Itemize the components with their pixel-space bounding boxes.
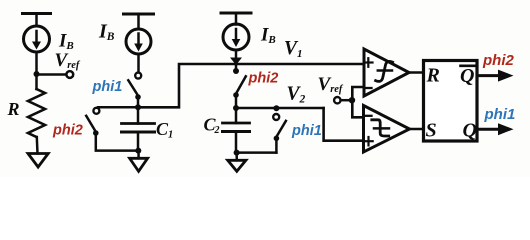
svg-text:IB: IB <box>58 31 74 53</box>
svg-text:V2: V2 <box>287 84 306 106</box>
svg-text:phi2: phi2 <box>248 71 279 87</box>
svg-text:IB: IB <box>260 25 276 47</box>
svg-text:phi1: phi1 <box>92 79 123 95</box>
svg-text:phi2: phi2 <box>482 52 514 69</box>
svg-text:V1: V1 <box>284 38 303 60</box>
svg-text:phi1: phi1 <box>484 106 516 123</box>
svg-text:Vref: Vref <box>55 50 81 71</box>
svg-text:Q: Q <box>460 65 474 87</box>
svg-text:IB: IB <box>98 21 115 44</box>
svg-text:phi2: phi2 <box>52 123 83 139</box>
svg-text:Q: Q <box>463 120 477 142</box>
svg-text:C1: C1 <box>156 119 173 141</box>
svg-text:phi1: phi1 <box>291 123 322 139</box>
svg-text:R: R <box>7 99 20 119</box>
svg-text:C2: C2 <box>204 115 220 137</box>
svg-text:Vref: Vref <box>318 74 344 95</box>
svg-text:S: S <box>426 120 437 142</box>
svg-text:R: R <box>426 65 440 87</box>
